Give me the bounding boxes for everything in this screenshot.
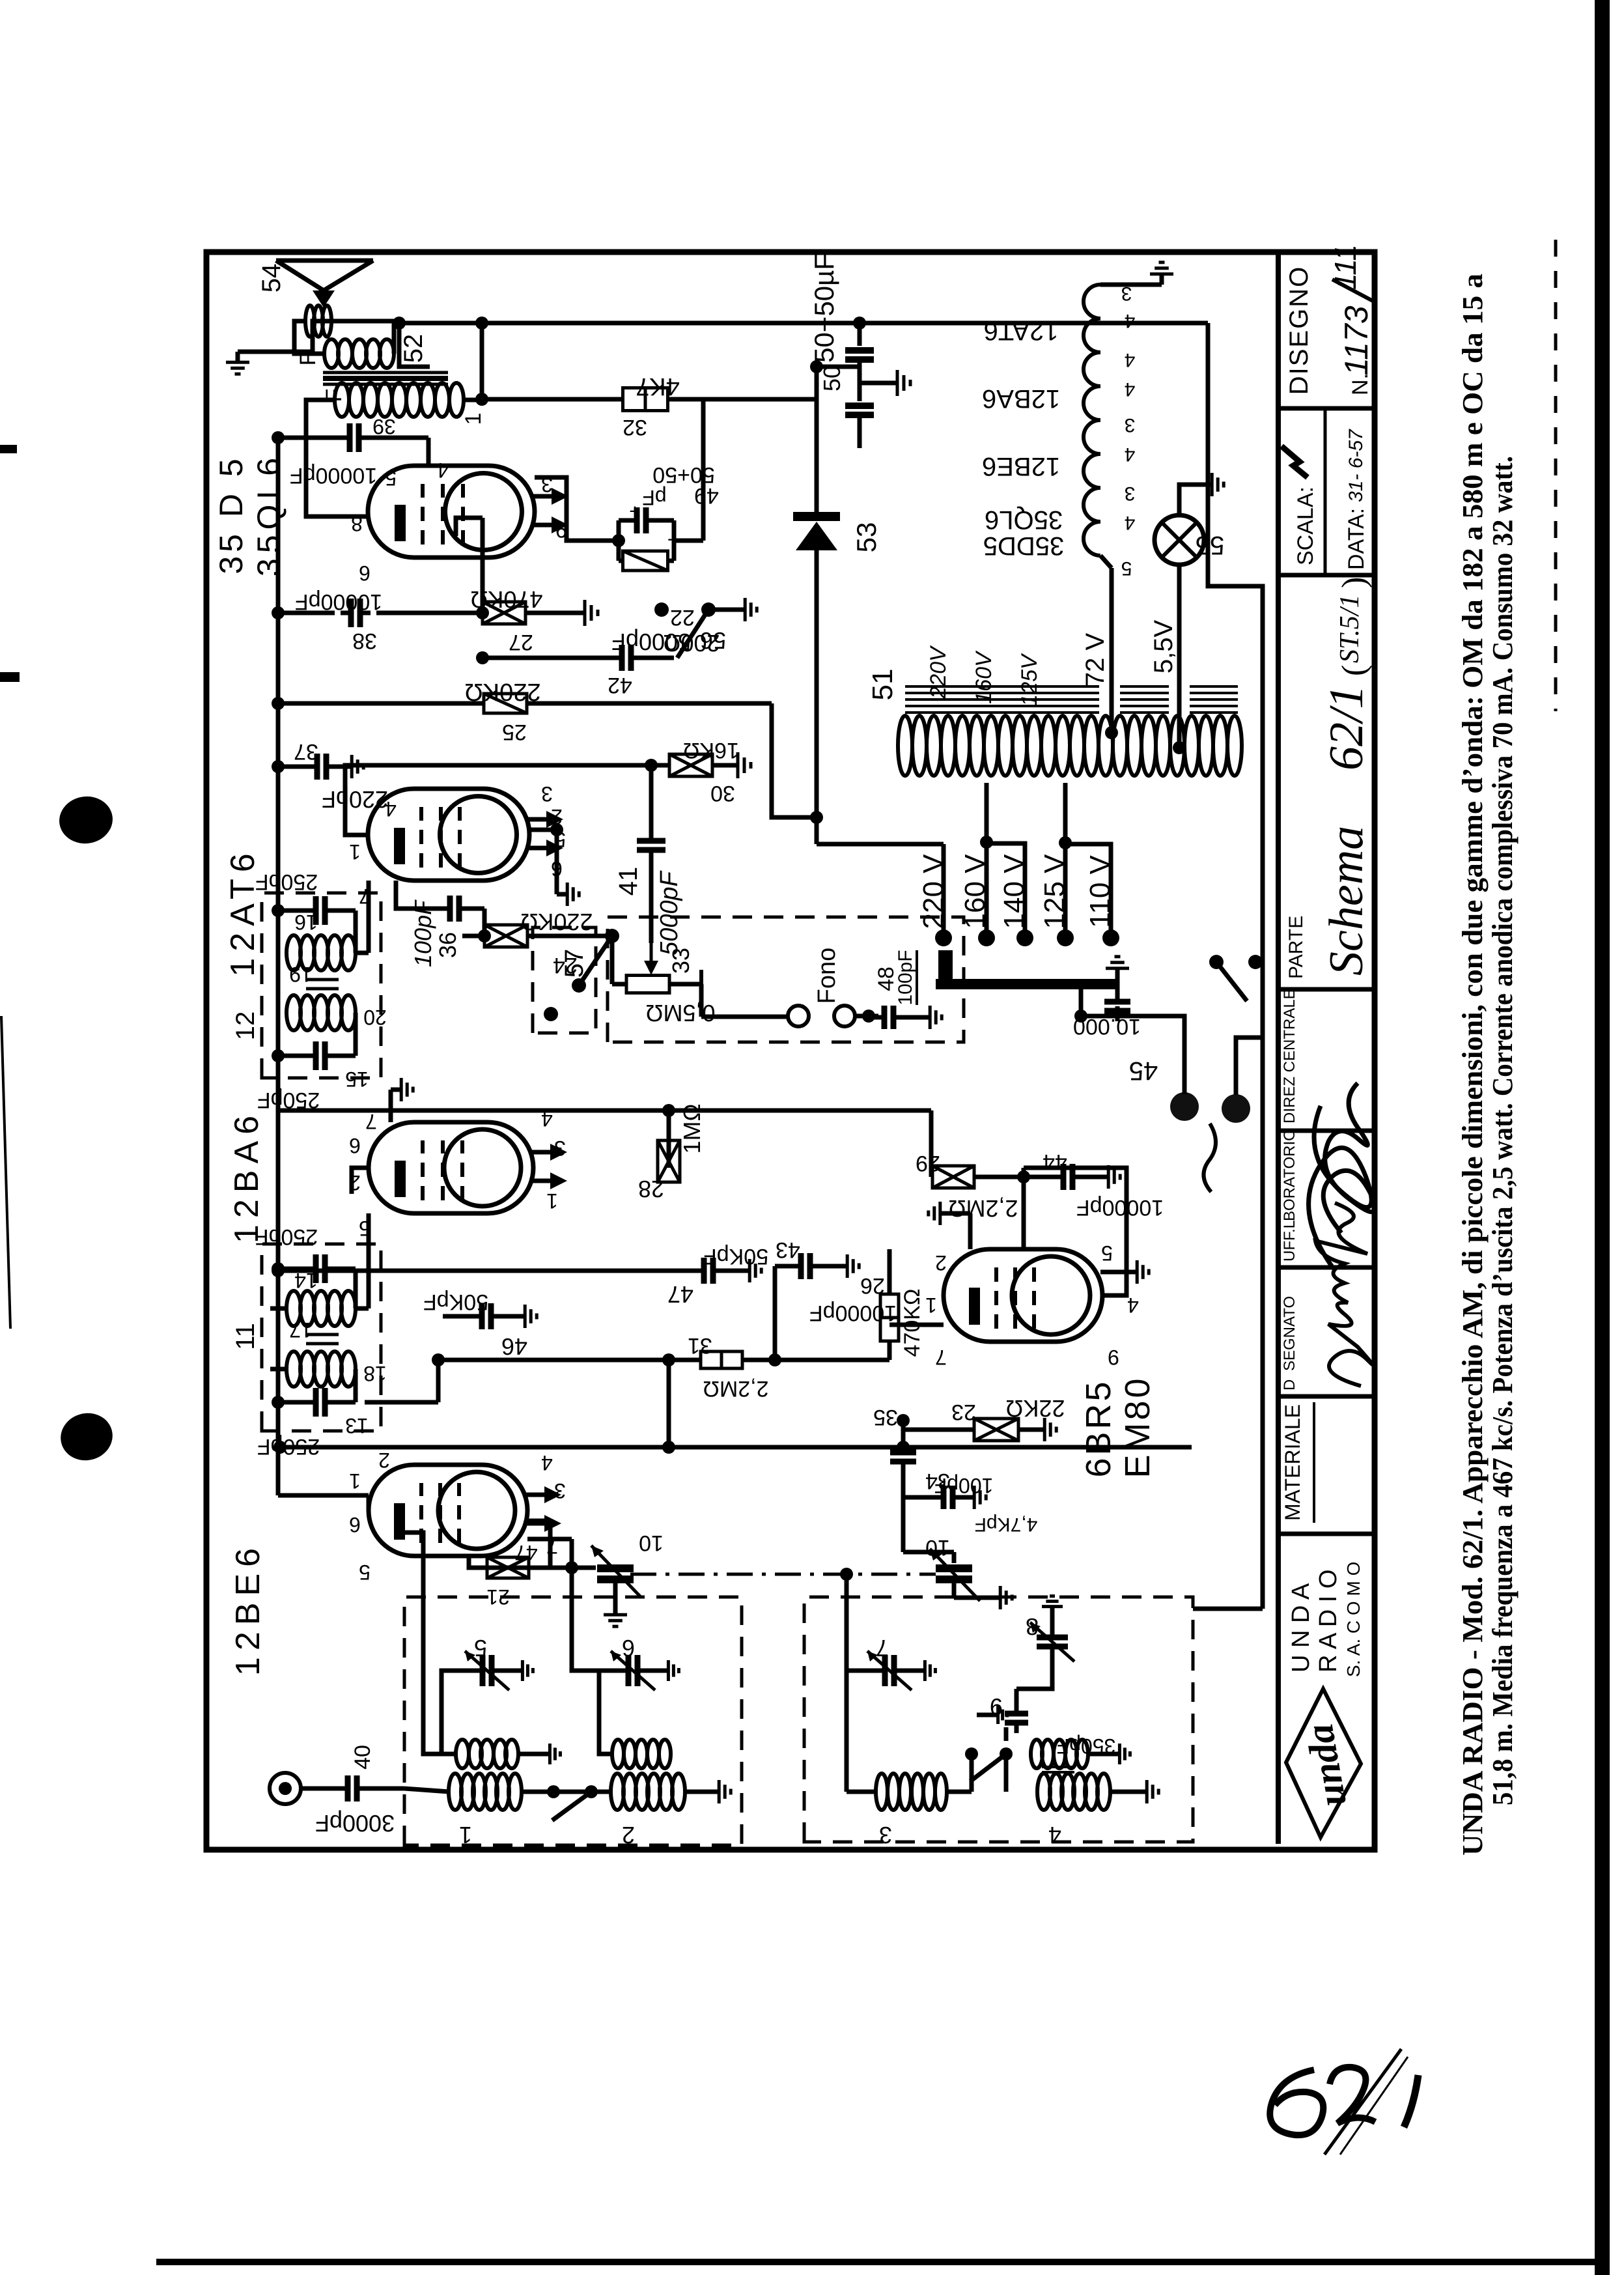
wire L17 to 12BA6 grid <box>270 1307 287 1311</box>
svg-text:EM80: EM80 <box>1118 1376 1157 1478</box>
wire OPT pri bottom to rail <box>464 323 482 400</box>
svg-text:54: 54 <box>257 264 286 293</box>
core marks T11 <box>306 1342 339 1346</box>
svg-text:140 V: 140 V <box>998 854 1030 929</box>
svg-text:DATA:: DATA: <box>1344 508 1369 570</box>
wire jackB down <box>855 1014 878 1019</box>
svg-text:44: 44 <box>1043 1150 1067 1174</box>
wire 35D5 grid <box>456 518 483 536</box>
wire top bus <box>276 436 281 1495</box>
switch 56 <box>654 602 669 617</box>
resistor R32 4K7 <box>482 397 623 402</box>
svg-text:4: 4 <box>1048 1822 1061 1848</box>
capacitor C38 <box>278 611 335 615</box>
svg-text:12BA6: 12BA6 <box>982 384 1060 413</box>
tube V3 12AT6 <box>368 789 529 881</box>
svg-text:5: 5 <box>474 1635 487 1661</box>
wire 6BR5 plate <box>1024 1168 1127 1295</box>
resistor R27 470K <box>483 602 525 624</box>
heater arrows V4 <box>531 523 554 528</box>
capacitor C44 10000pF <box>1024 1175 1057 1180</box>
svg-text:1173: 1173 <box>1338 305 1375 376</box>
svg-text:35QL6: 35QL6 <box>251 453 287 576</box>
svg-text:PARTE: PARTE <box>1285 916 1307 979</box>
svg-text:51: 51 <box>867 669 899 701</box>
svg-text:7: 7 <box>365 1110 377 1133</box>
ground 6BR5 pin4 <box>1100 1270 1127 1275</box>
svg-text:10000pF: 10000pF <box>295 589 382 614</box>
wire box B coil3 top <box>845 1574 849 1671</box>
core mark L4 <box>1042 1771 1074 1773</box>
svg-text:220pF: 220pF <box>322 786 388 813</box>
svg-text:28: 28 <box>638 1176 664 1202</box>
electrolytic C50b <box>858 367 862 401</box>
svg-text:51,8 m. Media frequenza a: 51,8 m. Media frequenza a 467 kc/s. Pote… <box>1487 456 1519 1805</box>
ground 6BR5 pin2 <box>968 1213 973 1249</box>
svg-text:31: 31 <box>688 1333 712 1358</box>
IF transformer T11 dashed box <box>262 1244 381 1431</box>
tuning gang section B <box>901 1497 906 1552</box>
capacitor C9 350pF <box>1004 1754 1009 1792</box>
wire OPT pri to plate <box>306 400 368 516</box>
band switch box A <box>547 1785 560 1798</box>
left edge crease <box>1 1016 10 1329</box>
svg-text:49: 49 <box>694 483 719 508</box>
coil L4 <box>1037 1773 1050 1810</box>
voltage selector bar <box>936 979 1117 989</box>
svg-text:): ) <box>1336 577 1373 588</box>
wire det bus <box>280 1445 1192 1450</box>
svg-text:29: 29 <box>916 1151 940 1176</box>
svg-text:34: 34 <box>925 1469 950 1493</box>
gang B arrow <box>930 1549 980 1601</box>
svg-text:36: 36 <box>434 932 461 958</box>
svg-text:4,7KpF: 4,7KpF <box>975 1514 1038 1535</box>
ground L1b <box>518 1752 540 1757</box>
title strip top line <box>1276 252 1281 1844</box>
svg-text:33: 33 <box>667 948 694 974</box>
svg-text:250pF: 250pF <box>255 1224 318 1249</box>
coil L1b secondary <box>456 1740 469 1768</box>
svg-text:3: 3 <box>554 1137 566 1160</box>
svg-text:10: 10 <box>925 1535 950 1560</box>
desegnato signature Romelli <box>1315 1203 1373 1386</box>
output transformer core <box>323 383 448 386</box>
svg-text:160 V: 160 V <box>959 854 991 929</box>
svg-text:45: 45 <box>1129 1056 1158 1085</box>
heater arrows V3 <box>525 846 549 851</box>
svg-text:4: 4 <box>1125 512 1136 533</box>
gang link dash-dot <box>630 1573 936 1576</box>
svg-text:22KΩ: 22KΩ <box>1006 1395 1065 1422</box>
svg-text:5: 5 <box>385 466 397 490</box>
wire T12 coil to 12AT6 <box>356 951 369 955</box>
wire diode to selector <box>817 842 944 847</box>
fold crease dashed <box>1554 240 1558 711</box>
svg-text:3: 3 <box>554 1479 566 1503</box>
wire top bus drop to 12BE6 grid <box>278 1493 369 1498</box>
svg-text:17: 17 <box>289 1318 313 1342</box>
transformer 51 winding <box>898 716 912 776</box>
uff laboratorio signature <box>1323 1083 1375 1233</box>
svg-text:160V: 160V <box>972 650 996 704</box>
svg-text:6: 6 <box>349 1513 361 1536</box>
ground R27 <box>573 611 585 615</box>
capacitor C47 50KpF <box>278 1269 292 1273</box>
wire cathode node <box>817 365 860 369</box>
svg-text:50: 50 <box>819 365 845 391</box>
svg-text:42: 42 <box>608 673 632 698</box>
svg-text:1: 1 <box>546 1189 558 1213</box>
svg-text:7: 7 <box>359 884 371 908</box>
materiale underline <box>1313 1402 1315 1523</box>
resistor R30 16K <box>651 763 668 768</box>
power cord squiggle <box>1203 1123 1216 1192</box>
electrolytic C45 10000 <box>1115 1006 1120 1016</box>
scala checkmark <box>1281 446 1308 477</box>
wire 12AT6 plate to R30 <box>345 765 651 835</box>
svg-text:5: 5 <box>1121 558 1132 579</box>
landscape drawing rotated 90deg CCW onto portrait page <box>206 244 1519 1856</box>
svg-text:111: 111 <box>1328 244 1362 290</box>
junction dots T11 bus <box>272 1396 285 1409</box>
svg-text:10: 10 <box>639 1531 664 1555</box>
scanner black right bar <box>1595 0 1610 2275</box>
junction dots T12 bus <box>272 1049 285 1062</box>
ground L4 <box>1110 1790 1136 1794</box>
ground 12BA6 pin7 <box>389 1090 393 1122</box>
svg-text:5: 5 <box>1101 1241 1113 1265</box>
svg-text:35 D 5: 35 D 5 <box>213 455 249 574</box>
resistor R24 220K <box>484 925 527 947</box>
output transformer 52 primary <box>335 383 349 417</box>
disegno slash <box>1332 279 1374 302</box>
coil L2b <box>612 1740 624 1768</box>
tube V5 6BR5/EM80 magic eye <box>944 1249 1102 1342</box>
svg-text:18: 18 <box>363 1362 387 1385</box>
svg-text:39: 39 <box>372 415 396 438</box>
svg-text:5: 5 <box>359 1217 371 1240</box>
wire 12BE6 pin7 <box>527 1537 572 1542</box>
wire R30 to C41 <box>649 765 654 835</box>
tuning gang section A <box>572 1566 596 1570</box>
svg-text:220V: 220V <box>926 645 951 699</box>
svg-text:3: 3 <box>879 1822 892 1848</box>
svg-text:125 V: 125 V <box>1039 854 1071 929</box>
capacitor C35 100pF <box>901 1420 906 1447</box>
front-end box B dashed <box>804 1597 1193 1842</box>
junction C42 <box>476 651 489 664</box>
svg-text:32: 32 <box>623 415 647 440</box>
svg-text:7: 7 <box>935 1346 947 1369</box>
wire AVC to IFT1 <box>438 1358 669 1363</box>
svg-text:40: 40 <box>350 1745 375 1770</box>
svg-text:72 V: 72 V <box>1081 633 1110 687</box>
wire osc to R21 <box>572 1568 599 1671</box>
ground 12AT6 pins <box>529 828 557 832</box>
tap wires <box>942 844 946 938</box>
svg-text:1: 1 <box>925 1293 937 1317</box>
coil L2 osc <box>611 1773 624 1810</box>
wire AVC long bus upper <box>278 701 484 706</box>
resistor R26 470K <box>1022 1168 1026 1249</box>
svg-text:MATERIALE :: MATERIALE : <box>1281 1392 1304 1521</box>
ground L2 <box>684 1790 708 1794</box>
svg-text:250pF: 250pF <box>255 869 318 894</box>
svg-text:62/1: 62/1 <box>1320 685 1373 770</box>
svg-text:41: 41 <box>614 867 643 896</box>
handwritten 62/1 <box>1270 2049 1418 2155</box>
wire mid bus <box>280 1109 931 1113</box>
wire 12AT6 grid to C36 <box>396 881 417 909</box>
heater arrows V2 <box>529 1179 553 1183</box>
wire box A to 12BE6 grid <box>405 1533 441 1754</box>
filament chain <box>1100 556 1112 568</box>
svg-text:56: 56 <box>700 627 726 654</box>
svg-text:50KpF: 50KpF <box>703 1244 768 1269</box>
wire det bus top <box>273 1441 287 1454</box>
wire spk to OPT <box>294 321 324 354</box>
svg-text:35DD5: 35DD5 <box>983 531 1065 560</box>
svg-text:38: 38 <box>352 629 377 653</box>
tube V2 12BA6 <box>369 1122 533 1213</box>
svg-text:100pF: 100pF <box>895 950 916 1005</box>
svg-text:110 V: 110 V <box>1084 855 1116 927</box>
wire 35D5 cathode <box>535 477 619 541</box>
trimmer C5 <box>441 1671 473 1754</box>
svg-text:+: + <box>629 500 641 522</box>
svg-text:46: 46 <box>501 1333 527 1360</box>
svg-text:6: 6 <box>622 1635 635 1661</box>
phono jack B <box>834 1006 855 1026</box>
svg-text:1: 1 <box>459 1822 472 1848</box>
svg-text:220 V: 220 V <box>917 854 949 929</box>
resistor R21 47ohm <box>527 1519 550 1523</box>
capacitor C43 10000pF <box>773 1266 777 1360</box>
resistor R28 1M <box>667 1110 671 1168</box>
unda logo diamond <box>1285 1688 1362 1838</box>
antenna jack <box>270 1773 301 1804</box>
svg-text:53: 53 <box>851 522 882 553</box>
svg-text:1: 1 <box>349 1469 361 1493</box>
svg-text:9: 9 <box>1108 1346 1119 1369</box>
ground speaker frame <box>238 321 331 352</box>
capacitor C14 <box>278 1267 310 1271</box>
wire B+ rail <box>399 321 1208 326</box>
direz signature squiggle <box>1309 1106 1372 1269</box>
svg-text:10000pF: 10000pF <box>809 1301 897 1325</box>
svg-text:3000pF: 3000pF <box>315 1810 395 1837</box>
svg-text:2: 2 <box>935 1251 947 1275</box>
gang A arrow <box>591 1546 641 1598</box>
wire 12BA6 plate to T11 <box>352 1168 369 1194</box>
power plug dots <box>1170 1092 1199 1121</box>
output transformer 52 secondary <box>324 339 339 368</box>
svg-text:2,2MΩ: 2,2MΩ <box>949 1195 1018 1222</box>
trimmer C6 <box>599 1671 619 1754</box>
coil L3 <box>876 1773 888 1810</box>
svg-text:UFF.L: UFF.L <box>1281 1220 1298 1262</box>
drawing frame border <box>206 252 1375 1850</box>
svg-text:SEGNATO: SEGNATO <box>1281 1296 1298 1371</box>
svg-text:F: F <box>296 352 320 366</box>
junction R30 <box>645 759 658 772</box>
svg-text:3: 3 <box>1125 483 1136 504</box>
heater arrows V1 <box>524 1521 547 1526</box>
coil L20 <box>287 995 301 1030</box>
svg-text:BORATORIO: BORATORIO <box>1281 1129 1298 1221</box>
pot bottom to fono <box>669 982 701 987</box>
svg-text:15: 15 <box>345 1067 369 1091</box>
svg-text:6: 6 <box>349 1134 361 1157</box>
junction C39 bus <box>272 431 285 444</box>
svg-text:50+50µF: 50+50µF <box>809 253 839 363</box>
svg-text:8: 8 <box>1026 1613 1039 1640</box>
trimmer C8 <box>1016 1656 1052 1689</box>
svg-text:4: 4 <box>1125 310 1136 332</box>
electrolytic C50a <box>858 323 862 346</box>
capacitor C46 50KpF <box>443 1314 476 1319</box>
capacitor C48 100pF <box>874 1015 884 1020</box>
svg-text:52: 52 <box>399 334 428 363</box>
ground L4b <box>1088 1752 1110 1757</box>
wire 72V tap <box>1110 568 1114 733</box>
wire C41 to pot arrow <box>649 901 654 943</box>
scala/data divider <box>1324 408 1327 575</box>
capacitor C37 220pF <box>278 765 311 769</box>
resistor R23 22K <box>901 1420 906 1447</box>
svg-text:6BR5: 6BR5 <box>1079 1379 1118 1477</box>
svg-text:D: D <box>1281 1379 1298 1391</box>
title strip divider <box>1278 1532 1375 1536</box>
scanner bottom line <box>156 2259 1606 2265</box>
capacitor C42 5000pF <box>483 656 615 660</box>
svg-text:35QL6: 35QL6 <box>985 505 1063 534</box>
svg-text:5,5V: 5,5V <box>1149 620 1178 674</box>
svg-text:37: 37 <box>294 739 318 764</box>
svg-text:3: 3 <box>1121 283 1132 304</box>
coil L4b <box>1031 1740 1043 1768</box>
title strip divider <box>1278 1265 1375 1270</box>
wire 12BE6 osc grid <box>469 1556 486 1568</box>
svg-text:55: 55 <box>1196 531 1225 559</box>
wire R31 bus link <box>667 1360 671 1447</box>
svg-text:2,2MΩ: 2,2MΩ <box>703 1376 768 1401</box>
title strip divider <box>1278 406 1375 411</box>
title strip divider <box>1278 1129 1375 1133</box>
switch box 57 <box>533 927 596 1033</box>
coil L19 <box>287 935 301 970</box>
wire cathode block to rail <box>701 399 706 541</box>
speaker 54 cone <box>276 261 373 290</box>
wire grid link 6BR5 <box>889 1323 944 1327</box>
svg-text:50KpF: 50KpF <box>423 1290 488 1314</box>
svg-text:U N D A: U N D A <box>1287 1583 1315 1673</box>
wire selector to mains <box>1081 989 1117 1016</box>
svg-text:11: 11 <box>231 1323 260 1350</box>
phono dashed box <box>608 917 964 1042</box>
svg-text:3: 3 <box>541 782 553 806</box>
svg-text:12BE6: 12BE6 <box>982 452 1060 481</box>
svg-text:4: 4 <box>437 459 449 482</box>
svg-text:12AT6: 12AT6 <box>224 847 262 976</box>
selector contacts <box>935 929 952 946</box>
svg-text:12: 12 <box>231 1011 260 1041</box>
svg-text:0,5MΩ: 0,5MΩ <box>646 1000 716 1026</box>
wire B+ top link <box>399 323 430 367</box>
capacitor C40 3000pF <box>301 1787 342 1791</box>
phono jack A <box>788 1006 809 1026</box>
coil L17 <box>287 1291 301 1326</box>
svg-text:5: 5 <box>359 1561 371 1584</box>
svg-text:125V: 125V <box>1017 653 1042 707</box>
svg-text:1: 1 <box>349 840 361 864</box>
potentiometer R33 0.5M <box>626 976 669 993</box>
svg-text:R A D I O: R A D I O <box>1315 1570 1342 1673</box>
resistor R29 2.2M <box>929 1110 934 1177</box>
svg-text:20: 20 <box>363 1006 387 1029</box>
svg-text:350pF: 350pF <box>1057 1734 1116 1758</box>
svg-text:10000pF: 10000pF <box>290 463 377 488</box>
wire T11 coil top to tube <box>356 1307 369 1311</box>
punch hole upper <box>56 793 115 847</box>
svg-text:UNDA RADIO - Mod. 62/1. A: UNDA RADIO - Mod. 62/1. Apparecchio AM, … <box>1457 274 1489 1856</box>
svg-text:Fono: Fono <box>813 948 841 1004</box>
title strip divider <box>1278 1394 1375 1399</box>
svg-text:2: 2 <box>622 1822 635 1848</box>
title strip divider <box>1278 573 1375 578</box>
tube V4 35D5/35QL6 <box>368 466 535 558</box>
wire B- return <box>1208 323 1263 1609</box>
svg-text:12BA6: 12BA6 <box>228 1109 266 1243</box>
speaker voice coil <box>305 305 315 337</box>
svg-text:35: 35 <box>873 1405 898 1430</box>
svg-text:25: 25 <box>502 720 527 744</box>
svg-text:Schema: Schema <box>1320 826 1373 976</box>
junction R27 top <box>476 606 489 619</box>
svg-text:30: 30 <box>710 781 735 806</box>
svg-text:DIREZ CENTRALE: DIREZ CENTRALE <box>1281 989 1298 1123</box>
coil L1 antenna <box>404 1788 449 1792</box>
mains switch <box>1248 955 1263 969</box>
capacitor C13 <box>278 1400 310 1405</box>
svg-text:N.: N. <box>1348 373 1373 395</box>
capacitor C16 <box>278 909 310 913</box>
svg-text:6: 6 <box>359 561 371 585</box>
svg-text:4: 4 <box>1127 1293 1139 1317</box>
svg-text:ST.5/1: ST.5/1 <box>1335 595 1365 663</box>
svg-text:19: 19 <box>289 963 313 986</box>
resistor R25 220K <box>484 694 527 713</box>
svg-text:47: 47 <box>667 1281 693 1308</box>
transformer 51 core <box>905 711 1099 714</box>
pot top terminator <box>612 982 626 987</box>
svg-text:4: 4 <box>541 1451 553 1475</box>
capacitor C34 <box>903 1495 938 1500</box>
svg-text:4: 4 <box>1125 378 1136 400</box>
left edge mark <box>0 672 20 682</box>
svg-text:(: ( <box>1336 665 1373 676</box>
band switch box B <box>965 1747 978 1760</box>
rectifier 53 <box>815 550 819 844</box>
capacitor C39 <box>278 436 344 440</box>
svg-text:pF: pF <box>642 486 666 509</box>
svg-text:13: 13 <box>345 1414 369 1437</box>
switch 57 contacts <box>572 978 586 993</box>
svg-text:43: 43 <box>776 1237 800 1262</box>
svg-text:31- 6-57: 31- 6-57 <box>1345 429 1367 502</box>
capacitor C15 <box>278 1054 310 1058</box>
